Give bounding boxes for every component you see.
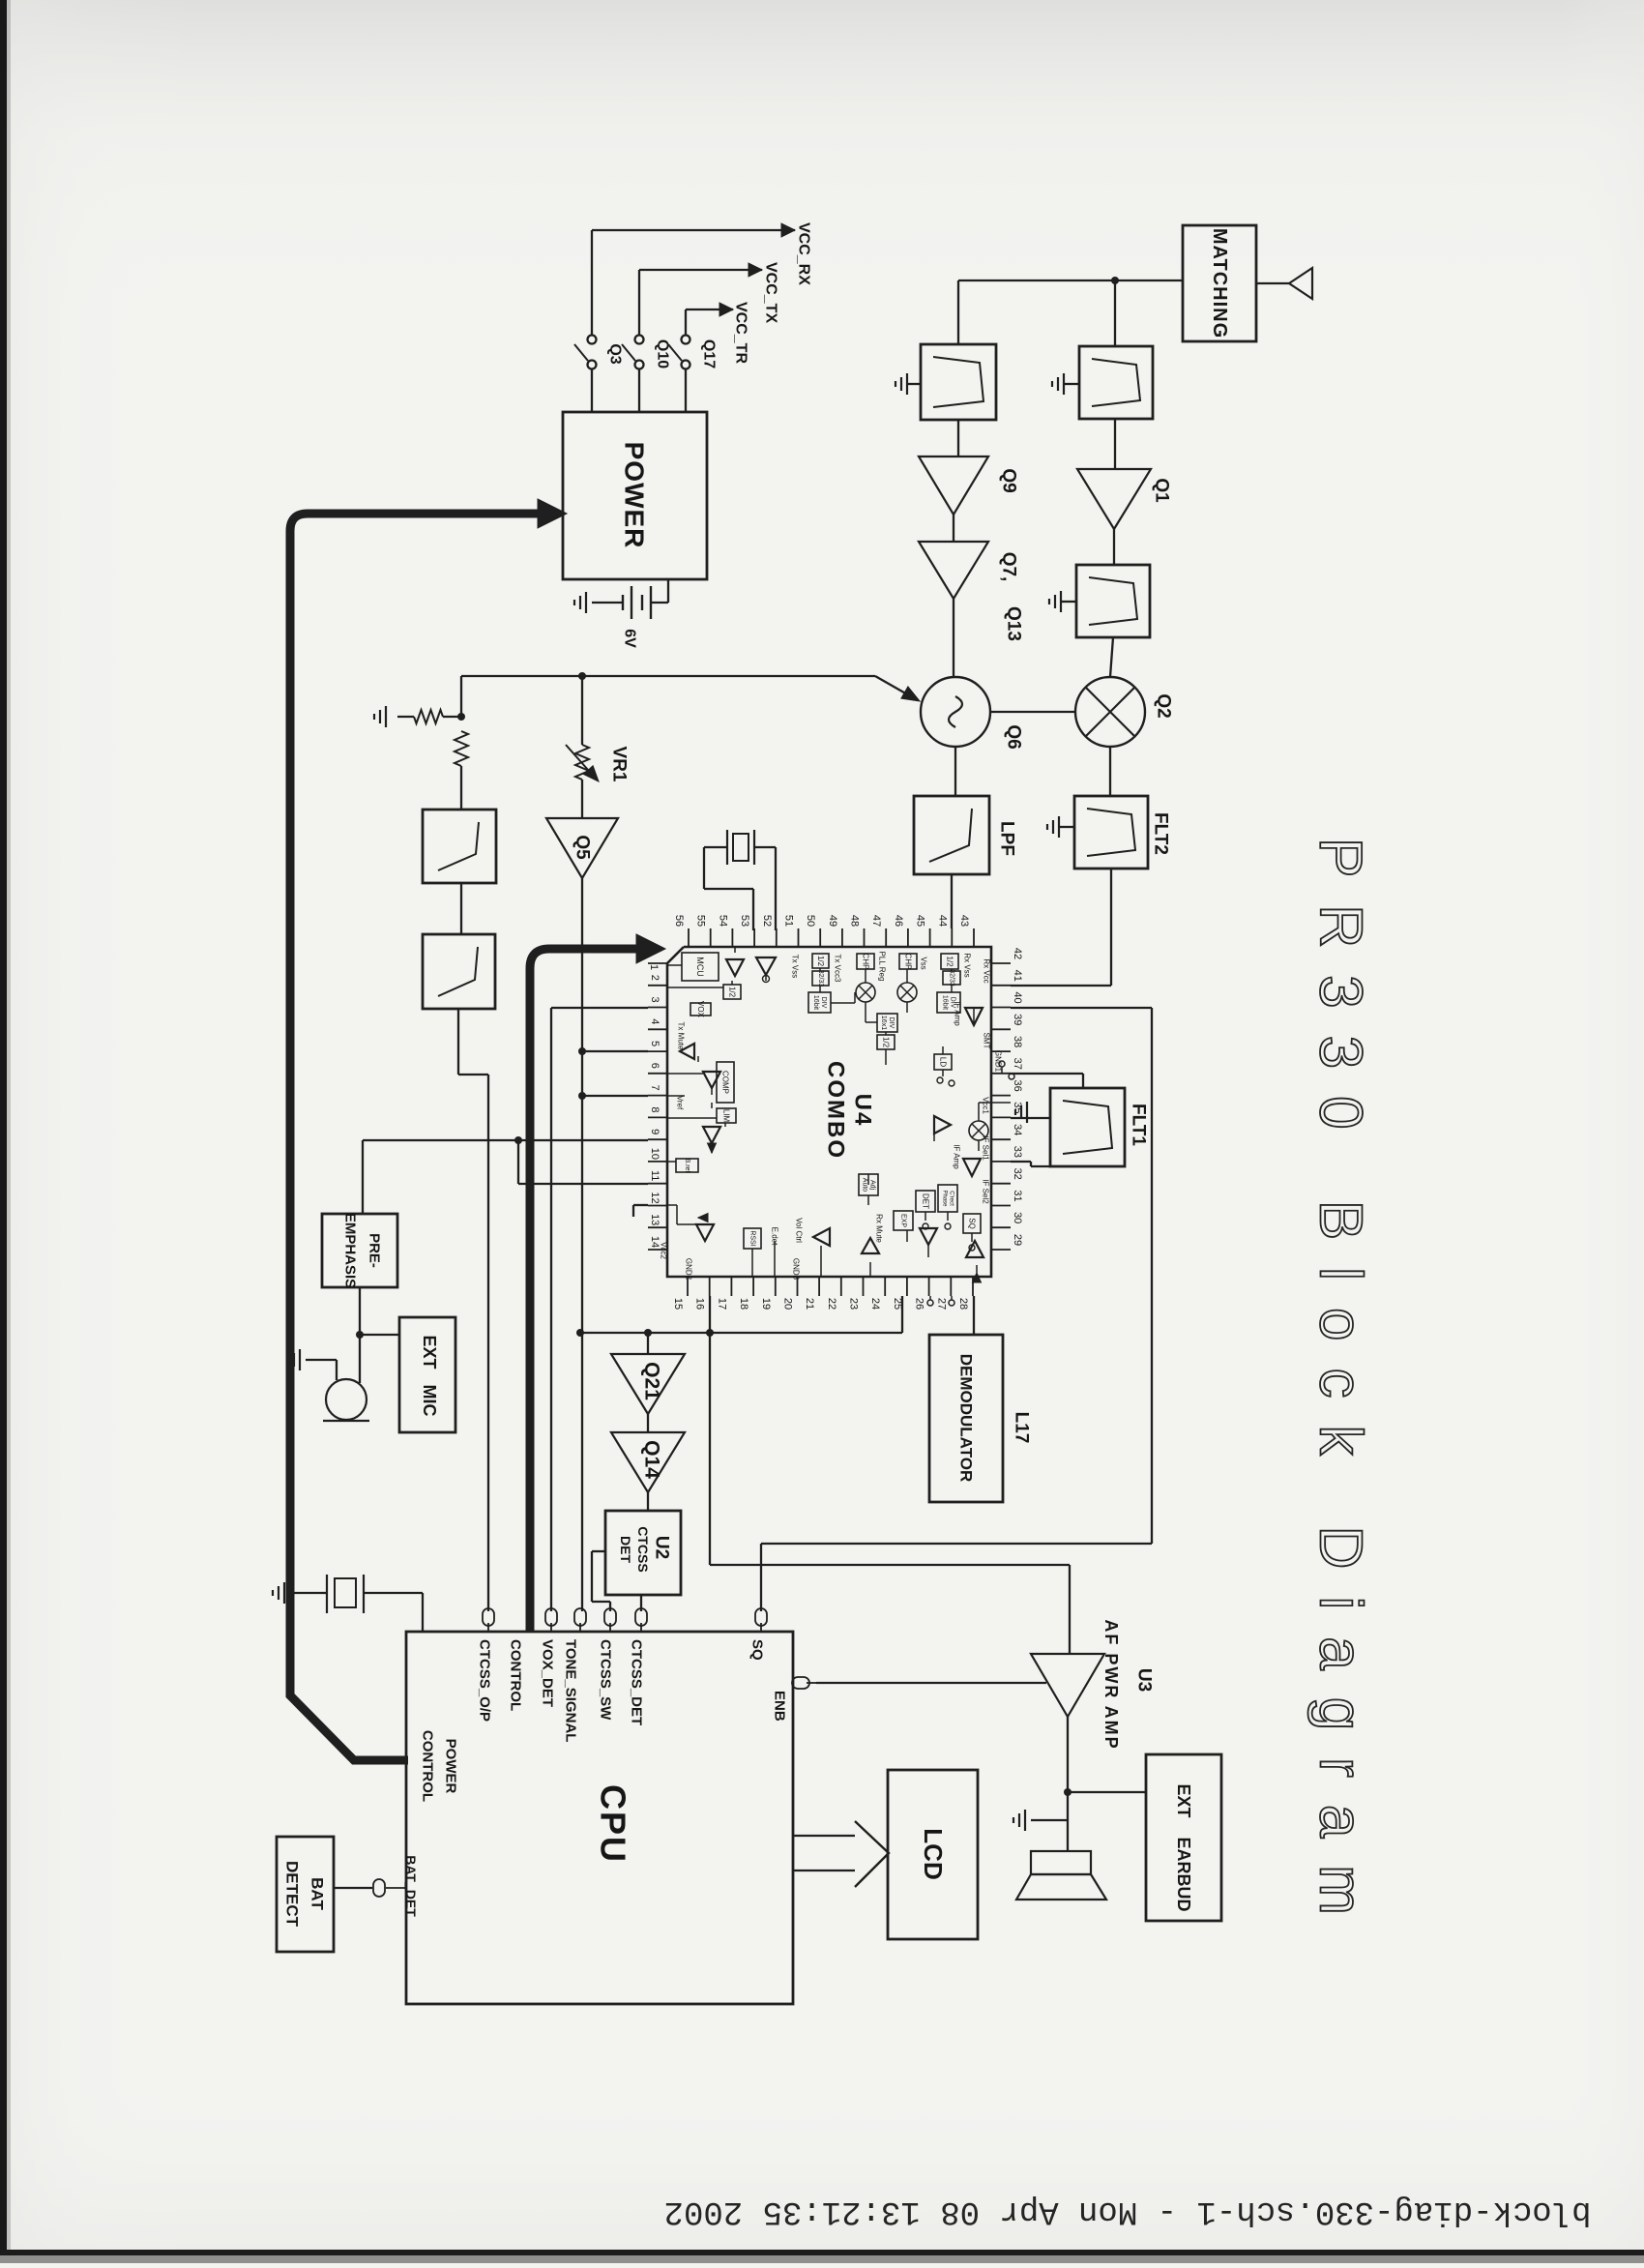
- svg-text:11: 11: [649, 1170, 661, 1181]
- svg-text:Q6: Q6: [1004, 724, 1024, 749]
- svg-text:42: 42: [1012, 948, 1023, 959]
- svg-text:13: 13: [649, 1214, 661, 1225]
- svg-text:51: 51: [783, 915, 795, 927]
- svg-text:55: 55: [695, 915, 707, 927]
- svg-text:Tx Vcc3: Tx Vcc3: [834, 955, 842, 983]
- svg-text:47: 47: [870, 915, 882, 927]
- svg-text:Q7,: Q7,: [999, 552, 1019, 582]
- svg-text:IF Amp: IF Amp: [954, 1001, 962, 1026]
- svg-text:VOX: VOX: [696, 1001, 705, 1018]
- svg-text:IF Amp: IF Amp: [953, 1144, 961, 1169]
- svg-text:50: 50: [805, 915, 816, 927]
- svg-text:Q1: Q1: [1152, 478, 1172, 503]
- svg-text:Q3: Q3: [607, 343, 624, 364]
- svg-text:12: 12: [649, 1192, 661, 1203]
- svg-text:31: 31: [1012, 1190, 1023, 1201]
- svg-text:34: 34: [1012, 1124, 1023, 1135]
- svg-text:37: 37: [1012, 1058, 1023, 1070]
- svg-text:DETECT: DETECT: [283, 1861, 302, 1928]
- svg-text:30: 30: [1012, 1212, 1023, 1223]
- svg-text:CPU: CPU: [594, 1784, 633, 1864]
- svg-text:Vref: Vref: [676, 1096, 685, 1110]
- svg-text:17: 17: [716, 1298, 727, 1310]
- svg-text:Q17: Q17: [701, 339, 718, 368]
- svg-text:38: 38: [1012, 1036, 1023, 1047]
- svg-text:22: 22: [826, 1298, 837, 1310]
- svg-text:EXP: EXP: [900, 1214, 907, 1227]
- svg-text:Q10: Q10: [655, 339, 671, 368]
- svg-text:VCC_TR: VCC_TR: [733, 302, 749, 364]
- svg-text:RSSI: RSSI: [749, 1230, 756, 1246]
- svg-text:PLL Reg: PLL Reg: [878, 952, 887, 982]
- svg-text:44: 44: [936, 915, 948, 927]
- svg-text:52: 52: [761, 915, 773, 927]
- svg-text:CTCSS_SW: CTCSS_SW: [598, 1639, 614, 1721]
- svg-text:CHP: CHP: [862, 954, 870, 970]
- svg-text:L17: L17: [1012, 1412, 1032, 1444]
- svg-text:VCC_RX: VCC_RX: [796, 222, 812, 285]
- svg-text:EARBUD: EARBUD: [1174, 1837, 1193, 1911]
- svg-text:28: 28: [957, 1298, 969, 1310]
- svg-text:Adj: Adj: [868, 1180, 875, 1191]
- svg-text:VCC_TX: VCC_TX: [763, 262, 779, 323]
- svg-text:Tx Vss: Tx Vss: [791, 955, 800, 978]
- svg-text:EXT: EXT: [420, 1335, 439, 1369]
- svg-text:Vss: Vss: [920, 957, 928, 969]
- svg-text:Q21: Q21: [641, 1362, 663, 1400]
- svg-text:46: 46: [893, 915, 904, 927]
- svg-text:Q2: Q2: [1154, 693, 1174, 718]
- svg-text:5: 5: [649, 1041, 661, 1046]
- svg-text:POWER: POWER: [620, 442, 650, 549]
- svg-text:AF PWR AMP: AF PWR AMP: [1101, 1619, 1121, 1750]
- svg-text:LPF: LPF: [997, 821, 1017, 856]
- svg-text:3: 3: [649, 996, 661, 1002]
- svg-text:33: 33: [1012, 1146, 1023, 1158]
- svg-text:8: 8: [649, 1106, 661, 1112]
- svg-text:DET: DET: [922, 1193, 930, 1209]
- svg-text:Auto: Auto: [862, 1178, 868, 1193]
- svg-text:LIM: LIM: [722, 1109, 731, 1123]
- svg-text:16bit: 16bit: [942, 995, 949, 1010]
- svg-text:40: 40: [1012, 991, 1023, 1003]
- svg-text:49: 49: [827, 915, 838, 927]
- svg-text:Vcc1: Vcc1: [982, 1097, 990, 1114]
- svg-text:Phase: Phase: [942, 1190, 948, 1207]
- svg-text:48: 48: [849, 915, 861, 927]
- svg-text:10: 10: [649, 1148, 661, 1160]
- svg-text:7: 7: [649, 1085, 661, 1091]
- svg-text:VR1: VR1: [609, 747, 630, 782]
- svg-text:FLT2: FLT2: [1151, 812, 1171, 855]
- svg-text:Rx Vcc: Rx Vcc: [983, 958, 991, 983]
- svg-text:PR330 Block Diagram: PR330 Block Diagram: [1307, 838, 1374, 1942]
- svg-text:Vcc2: Vcc2: [660, 1242, 668, 1259]
- svg-text:1/2: 1/2: [882, 1037, 891, 1048]
- svg-text:GND2: GND2: [685, 1258, 693, 1281]
- svg-text:56: 56: [673, 915, 685, 927]
- svg-text:CTCSS_DET: CTCSS_DET: [629, 1639, 645, 1725]
- svg-text:26: 26: [914, 1298, 925, 1310]
- svg-text:CTCSS_O/P: CTCSS_O/P: [477, 1639, 493, 1722]
- svg-text:Q5: Q5: [572, 835, 593, 860]
- svg-text:6V: 6V: [622, 629, 638, 648]
- svg-text:ENB: ENB: [772, 1691, 788, 1722]
- svg-text:Q13: Q13: [1004, 606, 1024, 641]
- svg-text:COMBO: COMBO: [823, 1061, 849, 1160]
- svg-text:19: 19: [760, 1298, 772, 1310]
- svg-text:Vol Ctrl: Vol Ctrl: [795, 1218, 804, 1243]
- svg-text:MATCHING: MATCHING: [1209, 228, 1230, 339]
- svg-text:IF Sel1: IF Sel1: [982, 1135, 990, 1161]
- svg-text:36: 36: [1012, 1079, 1023, 1091]
- svg-text:23: 23: [848, 1298, 860, 1310]
- svg-text:1/2: 1/2: [816, 956, 825, 967]
- svg-text:C'rect: C'rect: [948, 1191, 954, 1206]
- svg-text:MIC: MIC: [420, 1385, 439, 1417]
- svg-text:SQ: SQ: [749, 1639, 766, 1661]
- svg-text:54: 54: [717, 915, 728, 927]
- svg-text:Q9: Q9: [999, 468, 1019, 492]
- svg-text:B.ref: B.ref: [684, 1159, 690, 1173]
- svg-text:32/33: 32/33: [817, 970, 824, 987]
- svg-text:CONTROL: CONTROL: [420, 1730, 436, 1802]
- svg-text:1: 1: [648, 964, 660, 970]
- svg-text:DET: DET: [618, 1536, 633, 1563]
- svg-text:DIV: DIV: [820, 997, 827, 1009]
- svg-text:14: 14: [649, 1236, 661, 1248]
- svg-text:U3: U3: [1134, 1668, 1155, 1692]
- svg-text:6: 6: [649, 1063, 661, 1069]
- svg-text:U4: U4: [850, 1094, 876, 1128]
- svg-text:EMPHASIS: EMPHASIS: [342, 1213, 359, 1288]
- svg-text:FLT1: FLT1: [1129, 1104, 1149, 1146]
- svg-text:CONTROL: CONTROL: [508, 1639, 524, 1711]
- svg-text:VOX_DET: VOX_DET: [540, 1639, 556, 1707]
- svg-text:2: 2: [649, 975, 661, 981]
- svg-text:block-diag-330.sch-1 - Mon Apr: block-diag-330.sch-1 - Mon Apr 08 13:21:…: [664, 2193, 1592, 2229]
- svg-text:POWER: POWER: [443, 1739, 459, 1794]
- svg-text:MCU: MCU: [695, 957, 705, 977]
- svg-text:DIV: DIV: [888, 1017, 895, 1029]
- svg-text:53: 53: [739, 915, 750, 927]
- svg-text:39: 39: [1012, 1014, 1023, 1025]
- svg-text:BAT: BAT: [308, 1877, 327, 1910]
- svg-text:20: 20: [782, 1298, 794, 1310]
- svg-text:Rx Mute: Rx Mute: [875, 1214, 884, 1243]
- svg-text:COMP: COMP: [721, 1071, 730, 1094]
- svg-text:SMT: SMT: [983, 1033, 991, 1049]
- svg-text:LD: LD: [939, 1057, 948, 1067]
- svg-text:IF Sel2: IF Sel2: [982, 1179, 990, 1204]
- svg-text:9: 9: [649, 1129, 661, 1134]
- svg-text:CHP: CHP: [904, 954, 913, 970]
- svg-text:4: 4: [649, 1018, 661, 1024]
- svg-text:29: 29: [1012, 1234, 1023, 1246]
- svg-text:21: 21: [804, 1298, 815, 1310]
- svg-text:15: 15: [672, 1298, 684, 1310]
- svg-text:Tx Mute: Tx Mute: [677, 1022, 686, 1050]
- svg-text:BAT_DET: BAT_DET: [403, 1855, 419, 1917]
- svg-text:24: 24: [869, 1298, 881, 1310]
- svg-text:43: 43: [958, 915, 970, 927]
- svg-text:1/2: 1/2: [946, 956, 954, 967]
- svg-text:16bit: 16bit: [812, 995, 819, 1010]
- svg-text:16: 16: [694, 1298, 706, 1310]
- svg-text:18: 18: [738, 1298, 749, 1310]
- svg-text:32: 32: [1012, 1168, 1023, 1180]
- svg-text:1/2: 1/2: [728, 987, 737, 998]
- svg-text:Q14: Q14: [641, 1440, 663, 1479]
- svg-text:CTCSS: CTCSS: [635, 1526, 651, 1572]
- svg-text:41: 41: [1012, 970, 1023, 982]
- svg-text:32/33: 32/33: [949, 969, 955, 987]
- svg-text:DEMODULATOR: DEMODULATOR: [957, 1354, 976, 1483]
- svg-text:Rx Vss: Rx Vss: [963, 953, 972, 977]
- svg-text:LCD: LCD: [919, 1828, 948, 1879]
- svg-text:PRE-: PRE-: [367, 1233, 383, 1268]
- svg-text:U2: U2: [652, 1536, 672, 1559]
- svg-text:GND3: GND3: [792, 1258, 801, 1281]
- svg-text:27: 27: [935, 1298, 947, 1310]
- svg-text:TONE_SIGNAL: TONE_SIGNAL: [563, 1639, 579, 1742]
- svg-text:45: 45: [915, 915, 926, 927]
- svg-text:16x1: 16x1: [880, 1016, 887, 1030]
- svg-text:EXT: EXT: [1174, 1783, 1193, 1817]
- svg-text:SQ: SQ: [968, 1218, 977, 1229]
